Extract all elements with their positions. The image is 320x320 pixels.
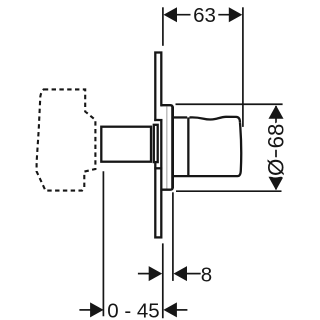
dimension 8 — [138, 192, 201, 318]
dimension 0 - 45 — [79, 171, 187, 317]
bottom extension line — [176, 190, 282, 192]
sleeve front face (thicker) — [171, 107, 174, 189]
left leader — [79, 309, 92, 311]
gap in plate right edge — [160, 106, 163, 119]
right leader — [186, 273, 201, 275]
knob (handle) — [173, 117, 241, 176]
plate hole bottom edge — [154, 167, 162, 169]
up arrow — [269, 105, 284, 119]
right extension line — [242, 7, 244, 127]
down arrow — [269, 177, 284, 191]
left extension line — [162, 7, 164, 46]
knob front face — [238, 122, 242, 176]
left arrow — [149, 266, 163, 281]
svg-text:63: 63 — [193, 4, 216, 27]
left arrow — [164, 7, 178, 22]
dashed concealed valve body — [37, 89, 96, 190]
sleeve contour (O 68) — [160, 105, 172, 190]
knob bottom edge — [173, 175, 238, 177]
hub on plate back — [154, 125, 158, 162]
plate (escutcheon, side view) — [154, 53, 163, 238]
top extension line — [176, 103, 283, 105]
dimension O 68 — [176, 104, 284, 191]
right leader — [176, 309, 187, 311]
dimension line — [166, 14, 241, 16]
right arrow — [174, 266, 188, 281]
stem (spindle) — [101, 127, 151, 162]
left leader — [138, 273, 151, 275]
dimension 63 — [163, 7, 243, 127]
left extension line (shared with 0-45 right) — [162, 243, 164, 318]
knob base top edge — [173, 116, 187, 118]
svg-text:Ø 68: Ø 68 — [264, 124, 289, 176]
left arrow — [90, 302, 104, 317]
dimension line — [275, 106, 277, 189]
knob division line — [187, 117, 189, 175]
left extension line — [102, 171, 104, 316]
right extension line — [172, 192, 174, 281]
right arrow — [163, 302, 177, 317]
svg-text:8: 8 — [201, 263, 212, 286]
right arrow — [229, 7, 243, 22]
plate hole top edge — [154, 119, 162, 121]
sleeve faint left edge — [166, 107, 168, 189]
svg-text:0 - 45: 0 - 45 — [107, 299, 159, 320]
knob grip top edge (wavy) — [190, 117, 240, 123]
